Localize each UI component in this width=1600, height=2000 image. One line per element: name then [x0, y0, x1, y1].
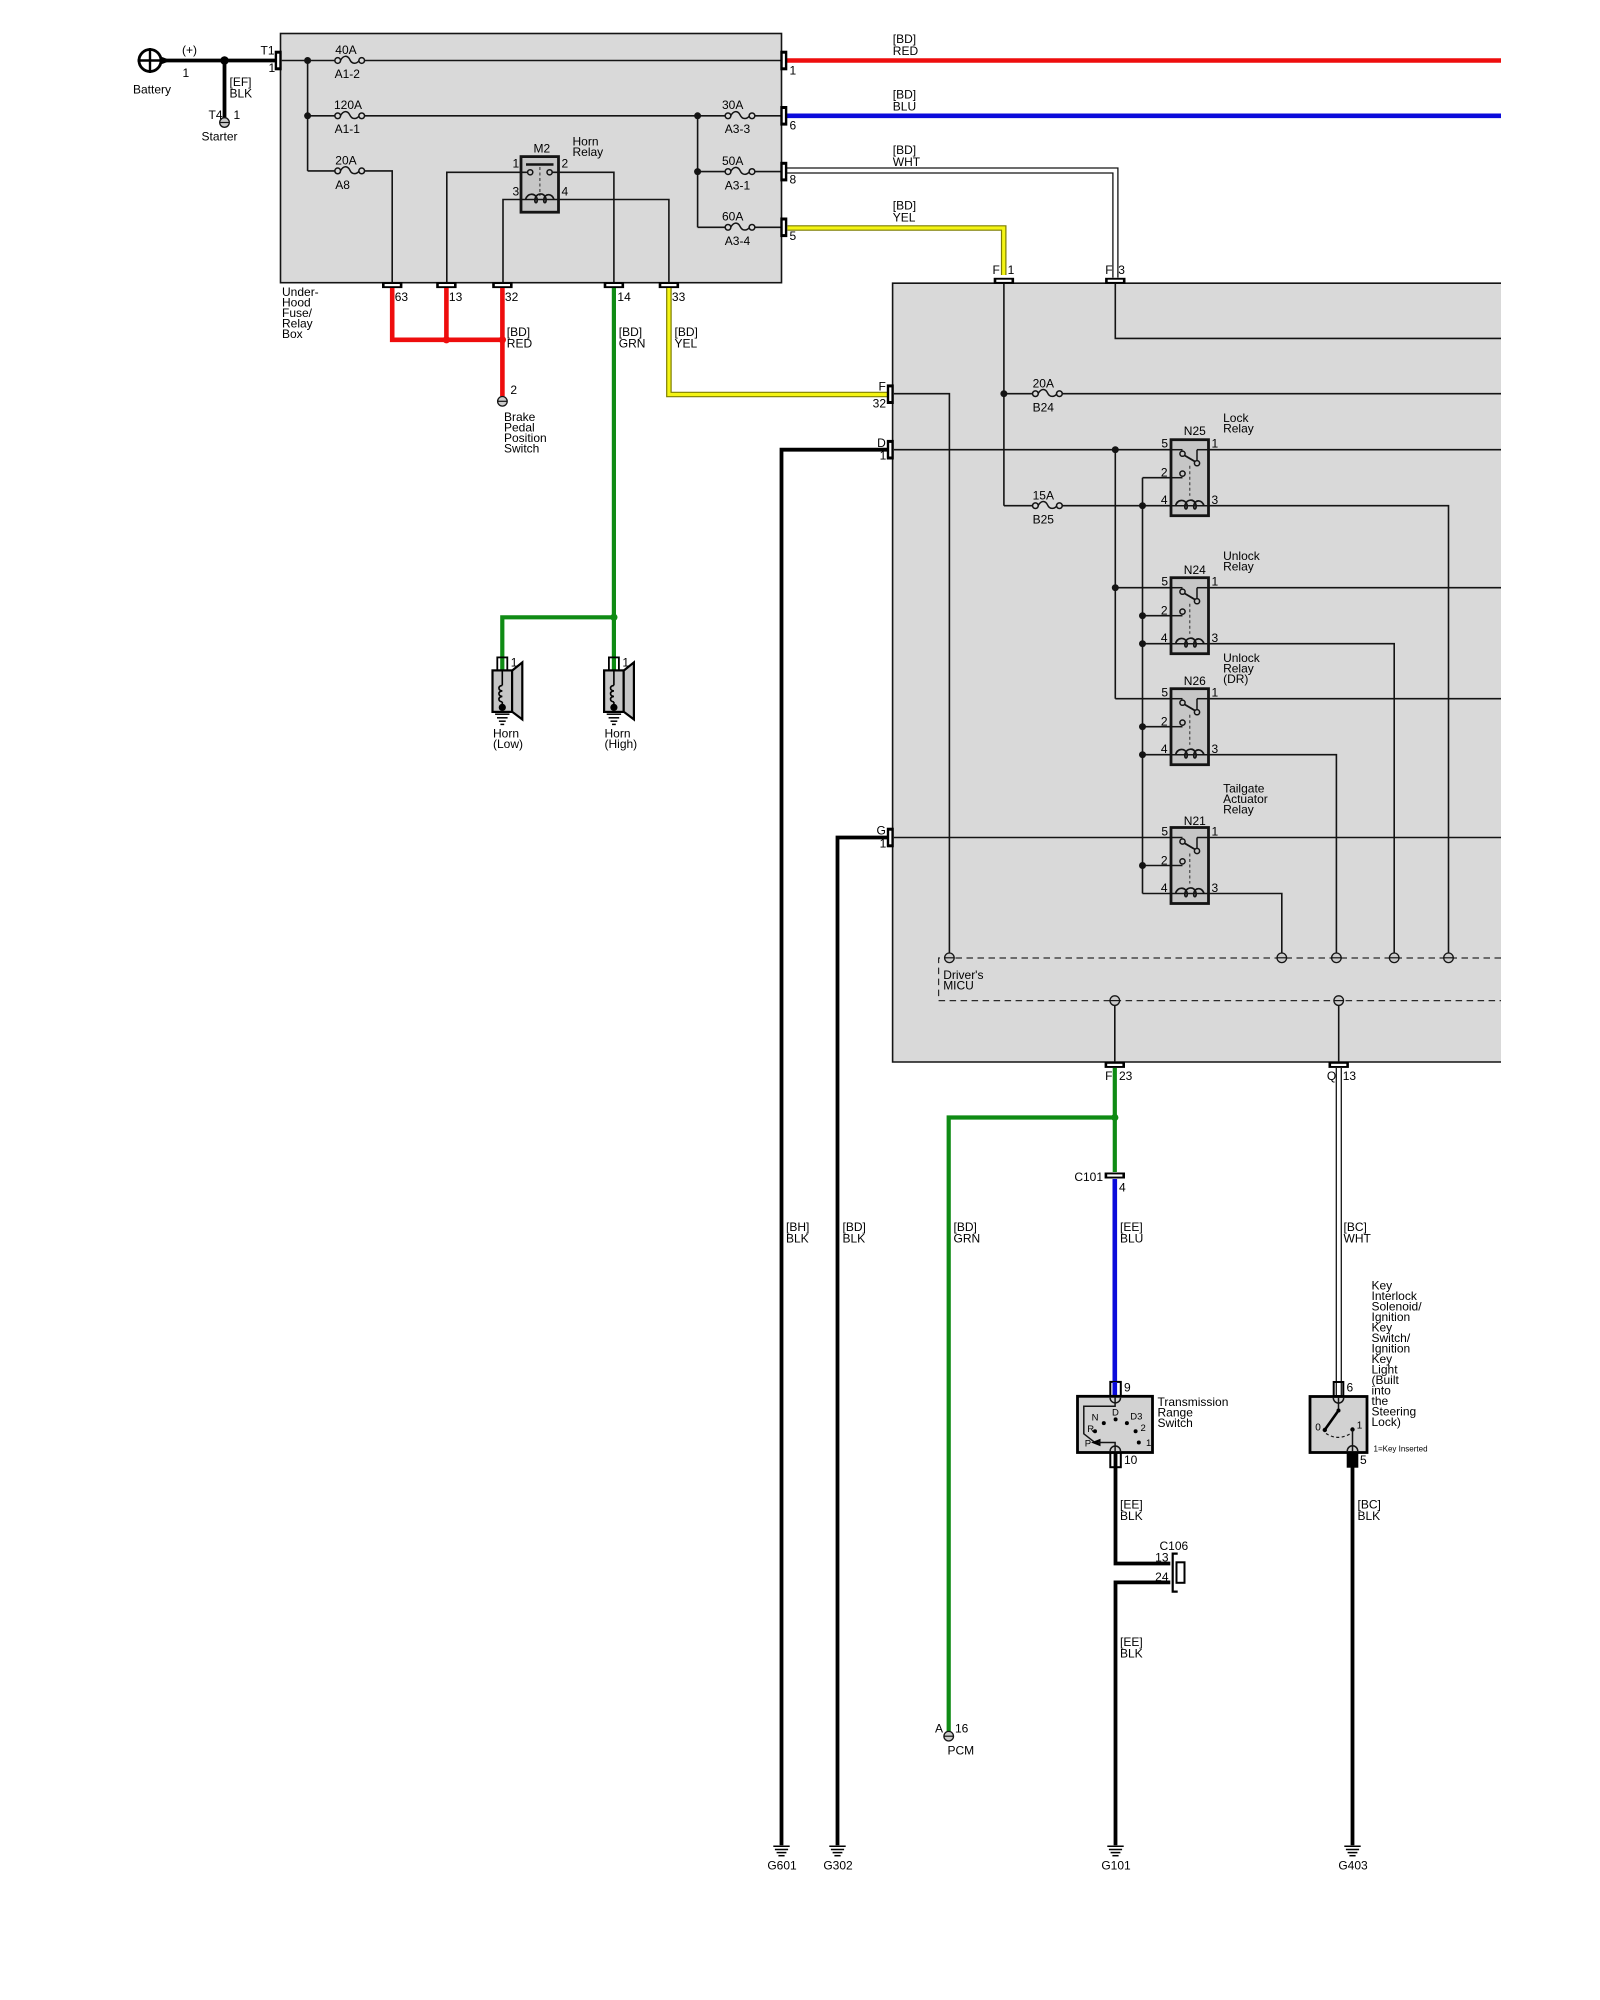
svg-text:20A: 20A — [1033, 377, 1054, 391]
svg-text:RED: RED — [507, 337, 533, 351]
connector F 32 (MICU left) — [887, 384, 894, 404]
svg-text:2: 2 — [510, 383, 517, 397]
connector 63 — [382, 282, 402, 288]
connector 32 — [492, 282, 512, 288]
wire N24 pin 1 run — [1209, 587, 1502, 589]
wire 40A fuse to connector 1 — [364, 60, 780, 62]
wire 20A fuse to connector 63 — [364, 171, 392, 283]
svg-text:Switch: Switch — [1158, 1416, 1193, 1430]
svg-text:N: N — [1092, 1413, 1099, 1424]
svg-text:(+): (+) — [182, 43, 197, 57]
connector C101 pin 4 — [1105, 1173, 1125, 1179]
svg-text:N25: N25 — [1184, 424, 1206, 438]
wire N26 pin 1 run — [1209, 698, 1502, 700]
key interlock solenoid / ignition key switch — [1310, 1397, 1367, 1453]
svg-text:GRN: GRN — [954, 1232, 981, 1246]
svg-text:T1: T1 — [260, 44, 274, 58]
connector C106 pins 13/24 — [1155, 1539, 1188, 1592]
svg-text:G101: G101 — [1101, 1859, 1131, 1873]
wire B24 feed — [1004, 393, 1033, 395]
wire [BD] RED brake feed — [392, 288, 502, 396]
svg-text:F: F — [878, 380, 885, 394]
fuse 40A A1-2 — [335, 56, 365, 63]
under-hood fuse/relay box — [281, 34, 782, 283]
wire B24 run right — [1062, 393, 1501, 395]
svg-text:32: 32 — [873, 397, 887, 411]
svg-text:15A: 15A — [1033, 489, 1054, 503]
svg-text:6: 6 — [790, 119, 797, 133]
svg-text:13: 13 — [449, 290, 463, 304]
svg-text:G: G — [876, 824, 885, 838]
wire [BD] YEL to F32 — [669, 288, 887, 395]
wire M2 pin 4 to connector 33 — [559, 200, 669, 283]
connector 5 — [780, 218, 787, 238]
svg-text:50A: 50A — [722, 154, 743, 168]
svg-text:5: 5 — [1360, 1453, 1367, 1467]
connector 14 — [604, 282, 624, 288]
wire [BC] WHT from Q13 to key switch — [1336, 1068, 1341, 1397]
svg-text:R: R — [1087, 1424, 1094, 1435]
wire N21 pin 2 tap — [1143, 865, 1172, 867]
svg-text:1: 1 — [790, 64, 797, 78]
svg-text:F: F — [1105, 263, 1112, 277]
MICU terminal (Q13 output) — [1334, 996, 1344, 1006]
svg-text:1: 1 — [1146, 1438, 1151, 1449]
transmission range switch — [1078, 1396, 1153, 1452]
junction dot N26 pin2 — [1139, 723, 1146, 730]
wire N21 pin 1 run — [1209, 837, 1502, 839]
svg-text:BLK: BLK — [1120, 1647, 1143, 1661]
svg-text:BLU: BLU — [1120, 1232, 1143, 1246]
svg-text:120A: 120A — [334, 98, 362, 112]
horn (high) — [604, 657, 634, 719]
junction battery/starter tee — [220, 56, 229, 65]
svg-text:2: 2 — [562, 157, 569, 171]
wire M2 pin 3 to connector 32 — [503, 200, 521, 283]
wire [EE] BLU to transmission range switch — [1113, 1179, 1118, 1383]
junction node D bus — [1112, 446, 1119, 453]
junction node 30A/50A bus — [694, 112, 701, 119]
MICU terminal (N21) — [1277, 953, 1287, 963]
svg-text:1: 1 — [234, 108, 241, 122]
svg-text:(DR): (DR) — [1223, 672, 1248, 686]
svg-text:Lock): Lock) — [1372, 1415, 1401, 1429]
wire T1 to 40A fuse feed — [282, 60, 335, 62]
wire battery to T1 (thick black) — [160, 59, 277, 63]
wire N24 pin 2 tap — [1143, 615, 1172, 617]
ground G403 — [1344, 1846, 1360, 1856]
junction node B24 feed — [1000, 390, 1007, 397]
MICU terminal (N26) — [1332, 953, 1342, 963]
svg-text:Relay: Relay — [1223, 560, 1254, 574]
junction node coil bus / B25 — [1139, 502, 1146, 509]
svg-text:N26: N26 — [1184, 674, 1206, 688]
wire [BD] GRN branch to PCM — [949, 1118, 1115, 1732]
wire N26 pin 3 to MICU terminal — [1209, 755, 1337, 953]
starter terminal T4 — [220, 118, 230, 128]
svg-text:16: 16 — [955, 1722, 969, 1736]
wire 60A to connector 5 — [755, 226, 781, 228]
ground at horn low — [495, 714, 509, 724]
MICU terminal (F23 output) — [1110, 996, 1120, 1006]
svg-text:GRN: GRN — [619, 337, 646, 351]
relay N24 (unlock relay) — [1161, 575, 1219, 654]
MICU terminal (N25) — [1444, 953, 1454, 963]
vertical feed bus in fuse box — [307, 61, 309, 171]
wire F1 drop to B24 node — [1003, 284, 1005, 394]
brake pedal position switch terminal 2 — [498, 397, 508, 407]
connector F 23 (MICU bottom) — [1105, 1062, 1125, 1068]
svg-text:BLK: BLK — [1358, 1509, 1381, 1523]
svg-text:Box: Box — [282, 327, 303, 341]
svg-text:BLU: BLU — [893, 100, 916, 114]
svg-text:G601: G601 — [767, 1859, 797, 1873]
svg-text:(Low): (Low) — [493, 737, 523, 751]
ground G101 — [1107, 1846, 1123, 1856]
junction green PCM branch — [1111, 1114, 1118, 1121]
svg-text:13: 13 — [1343, 1069, 1357, 1083]
connector 13 — [436, 282, 456, 288]
connector 6 — [780, 106, 787, 126]
svg-text:Starter: Starter — [202, 130, 238, 144]
ground G302 — [829, 1846, 845, 1856]
svg-text:BLK: BLK — [1120, 1509, 1143, 1523]
svg-text:N24: N24 — [1184, 563, 1206, 577]
wire [EE] BLK to C106 — [1116, 1453, 1171, 1564]
svg-text:Relay: Relay — [1223, 802, 1254, 816]
svg-text:A: A — [935, 1722, 943, 1736]
driver's MICU dashed boundary — [939, 958, 1501, 1001]
junction red 32 — [499, 336, 506, 343]
svg-text:1: 1 — [1357, 1421, 1363, 1432]
wire to starter [EF] BLK — [223, 61, 227, 118]
svg-text:A3-1: A3-1 — [725, 179, 751, 193]
wire 30A to connector 6 — [755, 115, 781, 117]
svg-text:YEL: YEL — [893, 211, 916, 225]
svg-text:(High): (High) — [605, 737, 638, 751]
junction dot N24 pin4 — [1139, 640, 1146, 647]
svg-text:D: D — [1112, 1407, 1119, 1418]
svg-text:T4: T4 — [208, 108, 222, 122]
svg-text:G302: G302 — [823, 1859, 853, 1873]
svg-text:1: 1 — [183, 66, 190, 80]
wire to F23 — [1114, 1005, 1116, 1061]
wire coil bus vertical — [1142, 478, 1144, 894]
connector T1 — [275, 51, 282, 71]
junction node 50A tap — [694, 168, 701, 175]
svg-text:F: F — [1105, 1069, 1112, 1083]
svg-text:BLK: BLK — [230, 87, 253, 101]
wire [BD] BLU — [783, 114, 1501, 119]
svg-text:BLK: BLK — [786, 1232, 809, 1246]
wire N21 pin 3 to MICU terminal — [1209, 894, 1282, 953]
svg-text:30A: 30A — [722, 98, 743, 112]
svg-text:M2: M2 — [534, 142, 551, 156]
wire N25 pin 2 tap — [1143, 477, 1172, 479]
wire 50A to connector 8 — [755, 171, 781, 173]
svg-text:33: 33 — [672, 290, 686, 304]
svg-text:A8: A8 — [335, 178, 350, 192]
connector Q 13 (MICU bottom) — [1329, 1062, 1349, 1068]
PCM terminal A 16 — [944, 1731, 954, 1741]
MICU terminal (F32 branch) — [945, 953, 955, 963]
connector 9 (TRS top) — [1110, 1382, 1121, 1397]
svg-text:3: 3 — [1118, 263, 1125, 277]
fuse 30A A3-3 — [725, 112, 755, 119]
fuse 15A B25 — [1004, 505, 1033, 507]
wire 20A feed — [308, 170, 336, 172]
svg-text:P: P — [1085, 1439, 1091, 1450]
wire N24 pin 4 tap — [1143, 643, 1172, 645]
svg-text:10: 10 — [1124, 1453, 1138, 1467]
svg-text:WHT: WHT — [1344, 1232, 1372, 1246]
junction dot N26 pin4 — [1139, 751, 1146, 758]
wire [BD] RED main feed — [783, 58, 1501, 63]
driver's MICU box — [893, 283, 1501, 1062]
svg-text:1: 1 — [511, 656, 518, 670]
wire [BD] GRN from F23 — [1113, 1068, 1117, 1172]
svg-text:Relay: Relay — [573, 145, 604, 159]
svg-text:RED: RED — [893, 44, 919, 58]
wire G1 run to N21 pin 5 — [894, 837, 1171, 839]
wire 120A fuse to 30A fuse — [364, 115, 725, 117]
wire [BD] BLK from G1 to G302 — [838, 838, 888, 1846]
svg-text:MICU: MICU — [943, 978, 974, 992]
junction dot N21 pin2 — [1139, 862, 1146, 869]
svg-text:9: 9 — [1124, 1381, 1131, 1395]
svg-text:14: 14 — [617, 290, 631, 304]
wire N26 pin 4 tap — [1143, 754, 1172, 756]
svg-text:A1-2: A1-2 — [335, 67, 361, 81]
svg-text:6: 6 — [1347, 1381, 1354, 1395]
wire 50A feed — [698, 171, 726, 173]
svg-text:C101: C101 — [1074, 1170, 1103, 1184]
svg-text:8: 8 — [790, 173, 797, 187]
svg-text:A3-3: A3-3 — [725, 122, 751, 136]
junction node 120A bus — [304, 112, 311, 119]
svg-text:N21: N21 — [1184, 814, 1206, 828]
svg-text:4: 4 — [562, 185, 569, 199]
svg-text:1=Key Inserted: 1=Key Inserted — [1374, 1445, 1428, 1454]
wire D bus to N24 pin 5 — [1115, 587, 1171, 589]
connector 33 — [659, 282, 679, 288]
svg-text:D3: D3 — [1130, 1412, 1142, 1423]
ground at horn high — [607, 714, 621, 724]
wire 120A feed — [308, 115, 336, 117]
svg-text:3: 3 — [513, 185, 520, 199]
fuse 20A B24 — [1033, 390, 1063, 397]
junction dot N24 pin2 — [1139, 612, 1146, 619]
svg-text:23: 23 — [1119, 1069, 1133, 1083]
under-hood box label — [282, 285, 319, 341]
horn (low) — [493, 657, 523, 719]
junction red 13 — [443, 336, 450, 343]
svg-text:Q: Q — [1327, 1069, 1336, 1083]
svg-text:0: 0 — [1315, 1423, 1321, 1434]
fuse 60A A3-4 — [725, 223, 755, 230]
svg-text:Battery: Battery — [133, 83, 171, 97]
svg-text:1: 1 — [622, 656, 629, 670]
wire M2 pin 2 to connector 14 — [552, 172, 614, 282]
junction node N24 pin5 tap — [1112, 584, 1119, 591]
svg-text:Switch: Switch — [504, 442, 539, 456]
fuse 20A A8 — [335, 167, 365, 174]
fuse 50A A3-1 — [725, 167, 755, 174]
wire D bus vertical — [1114, 450, 1116, 699]
svg-text:PCM: PCM — [948, 1744, 975, 1758]
connector 6 (key switch top) — [1334, 1382, 1344, 1396]
junction green horn split — [610, 614, 617, 621]
svg-text:YEL: YEL — [675, 337, 698, 351]
connector 8 — [780, 162, 787, 182]
horn relay M2 — [513, 135, 604, 213]
svg-text:4: 4 — [1119, 1181, 1126, 1195]
relay N26 (unlock relay DR) — [1161, 686, 1219, 765]
wire N25 pin 1 run — [1209, 449, 1502, 451]
wire 60A feed — [698, 226, 726, 228]
relay N21 (tailgate actuator relay) — [1161, 825, 1219, 904]
wire N25 pin 3 to MICU terminal — [1209, 506, 1449, 953]
svg-text:BLK: BLK — [843, 1232, 866, 1246]
svg-text:60A: 60A — [722, 210, 743, 224]
svg-text:B25: B25 — [1033, 513, 1055, 527]
wire to Q13 — [1338, 1005, 1340, 1061]
wire [BD] GRN horn feed — [502, 288, 614, 671]
svg-text:C106: C106 — [1160, 1539, 1189, 1553]
connector F 3 (MICU top) — [1105, 278, 1125, 284]
svg-text:2: 2 — [1141, 1423, 1146, 1434]
svg-text:A1-1: A1-1 — [335, 122, 361, 136]
wire F32 to MICU terminal — [894, 394, 950, 953]
fuse 120A A1-1 — [335, 112, 365, 119]
wire connector 13 to M2 pin 1 — [447, 172, 528, 282]
wire N24 pin 3 to MICU terminal — [1209, 644, 1395, 953]
relay N25 (lock relay) — [1161, 437, 1219, 516]
svg-text:32: 32 — [505, 290, 519, 304]
wire [EE] BLK from C106 to G101 — [1116, 1582, 1171, 1845]
connector F 1 (MICU top) — [994, 278, 1014, 284]
wire N26 pin 2 tap — [1143, 726, 1172, 728]
connector 10 (TRS bottom) — [1110, 1453, 1121, 1468]
svg-text:40A: 40A — [335, 43, 356, 57]
svg-text:WHT: WHT — [893, 155, 921, 169]
wire [BD] YEL top to F1 — [788, 228, 1004, 275]
wire B24 node down to B25 — [1003, 394, 1005, 506]
svg-text:5: 5 — [790, 229, 797, 243]
connector 5 (key switch bottom) — [1348, 1453, 1358, 1467]
svg-text:20A: 20A — [335, 154, 356, 168]
junction node 40A bus — [304, 57, 311, 64]
vertical bus 30A-60A — [697, 116, 699, 228]
wire D bus to N26 pin 5 — [1115, 698, 1171, 700]
svg-text:Relay: Relay — [1223, 421, 1254, 435]
svg-text:1: 1 — [513, 157, 520, 171]
svg-text:1: 1 — [269, 61, 276, 75]
wire D1 run to N25 pin 5 — [894, 449, 1171, 451]
wire F3 drop and run — [1115, 284, 1501, 338]
svg-text:B24: B24 — [1033, 401, 1055, 415]
wire N21 pin 4 tap — [1143, 893, 1172, 895]
wire [BD] WHT (double line) to F3 — [787, 168, 1118, 278]
svg-text:G403: G403 — [1338, 1859, 1368, 1873]
battery B1 — [133, 43, 197, 97]
wire [BC] BLK to G403 — [1351, 1453, 1355, 1845]
ground G601 — [773, 1846, 789, 1856]
connector 1 (fuse box right) — [780, 51, 787, 71]
svg-text:63: 63 — [395, 290, 409, 304]
MICU terminal (N24) — [1389, 953, 1399, 963]
svg-text:F: F — [992, 263, 999, 277]
wire B25 to N25 pin 4 — [1062, 505, 1171, 507]
wire [BH] BLK from D1 to G601 — [782, 450, 888, 1846]
svg-text:1: 1 — [1008, 263, 1015, 277]
svg-text:A3-4: A3-4 — [725, 234, 751, 248]
